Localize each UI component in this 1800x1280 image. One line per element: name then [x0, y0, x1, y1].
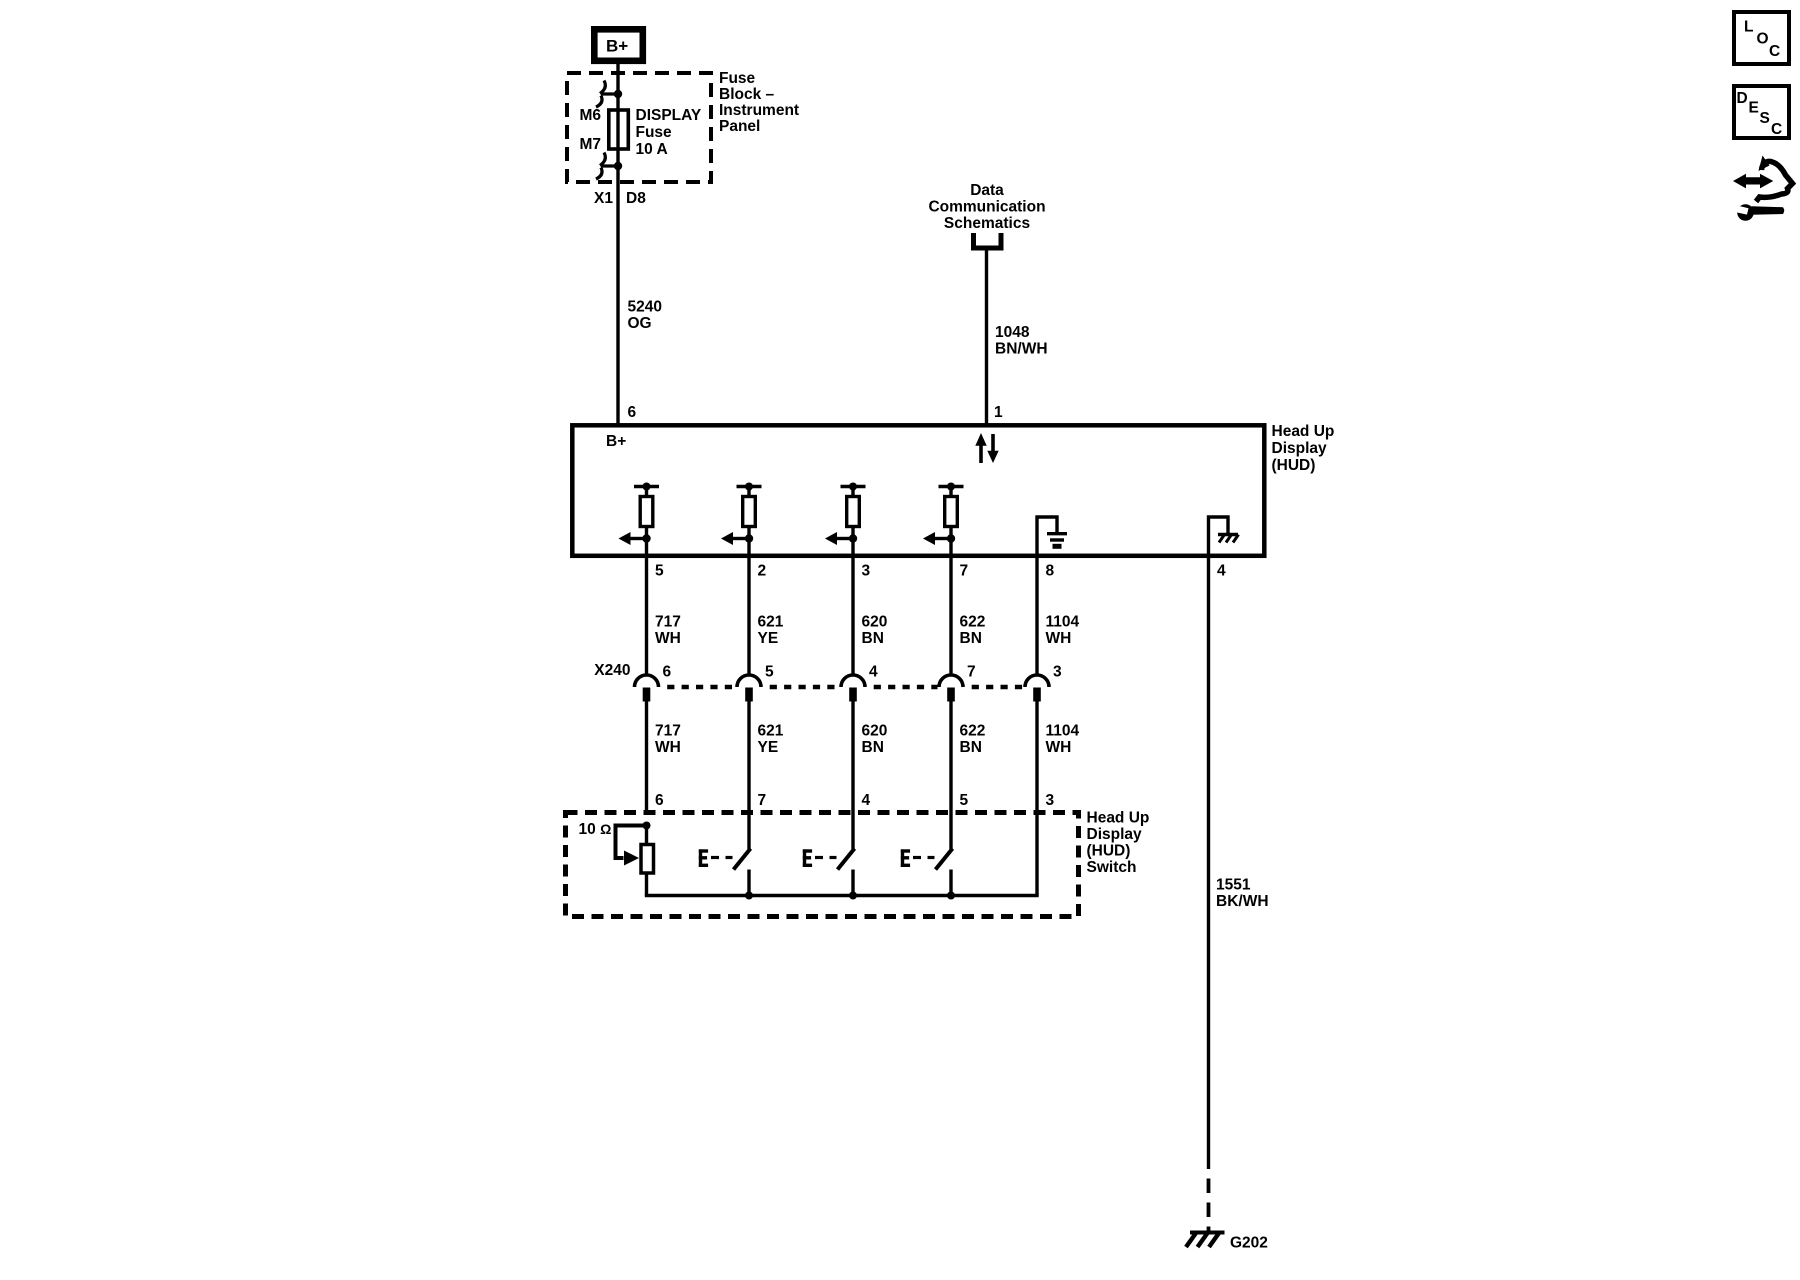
- wire 622 BN lower segment: [949, 702, 952, 813]
- svg-text:10 Ω: 10 Ω: [579, 821, 612, 838]
- svg-text:1104: 1104: [1046, 723, 1080, 740]
- svg-text:BN: BN: [960, 630, 982, 647]
- svg-text:BN: BN: [960, 739, 982, 756]
- wire label 620 BN (upper): [862, 614, 888, 648]
- svg-text:YE: YE: [758, 630, 779, 647]
- wire 1551 BK/WH label: [1216, 877, 1269, 911]
- wire label 1104 WH (upper): [1046, 614, 1080, 648]
- svg-text:7: 7: [758, 792, 767, 809]
- svg-text:2: 2: [758, 563, 767, 580]
- Head Up Display (HUD) module box: [572, 425, 1264, 556]
- svg-text:622: 622: [960, 723, 986, 740]
- wire 5240 OG label: [628, 299, 662, 333]
- X240 connector dashed link: [763, 685, 840, 690]
- svg-text:Switch: Switch: [1087, 859, 1137, 876]
- wire 1048 BN/WH label: [995, 324, 1048, 358]
- svg-text:X240: X240: [594, 662, 630, 679]
- wire 620 BN lower segment: [851, 702, 854, 813]
- svg-text:Block –: Block –: [719, 86, 775, 103]
- wire 717 WH lower segment: [645, 702, 648, 813]
- svg-text:DISPLAY: DISPLAY: [636, 107, 702, 124]
- svg-text:4: 4: [862, 792, 871, 809]
- svg-text:5: 5: [655, 563, 664, 580]
- svg-text:BN: BN: [862, 739, 884, 756]
- wire 621 YE lower segment: [747, 702, 750, 813]
- fuse block dashed box: [567, 73, 711, 182]
- svg-text:622: 622: [960, 614, 986, 631]
- svg-text:WH: WH: [655, 630, 681, 647]
- svg-text:WH: WH: [1046, 630, 1072, 647]
- svg-text:G202: G202: [1230, 1235, 1268, 1252]
- svg-text:Fuse: Fuse: [636, 124, 673, 141]
- svg-text:Display: Display: [1087, 826, 1143, 843]
- svg-text:Panel: Panel: [719, 118, 760, 135]
- svg-text:BN: BN: [862, 630, 884, 647]
- svg-text:M7: M7: [579, 136, 601, 153]
- svg-text:717: 717: [655, 723, 681, 740]
- svg-text:B+: B+: [606, 37, 628, 56]
- battery positive voltage B+: [594, 29, 643, 61]
- HUD internal sensed element R3 (resistor with wiper arrow): [825, 483, 866, 557]
- svg-text:3: 3: [862, 563, 871, 580]
- HUD internal chassis ground (pin 4): [1209, 517, 1239, 556]
- fuse value label: [636, 107, 702, 158]
- wire label 621 YE (upper): [758, 614, 784, 648]
- wire 1104 WH upper segment: [1035, 558, 1038, 676]
- wire 1104 WH inside switch box: [1035, 812, 1038, 896]
- fuse block label: [719, 70, 799, 135]
- wire 1048 BN/WH serial data: [985, 247, 988, 426]
- fuse clip terminal M6: [596, 81, 622, 108]
- wire label 622 BN (upper): [960, 614, 986, 648]
- svg-text:Fuse: Fuse: [719, 70, 756, 87]
- svg-text:1551: 1551: [1216, 877, 1251, 894]
- svg-text:5: 5: [765, 664, 774, 681]
- wire label 621 YE (lower): [758, 723, 784, 757]
- svg-text:621: 621: [758, 723, 784, 740]
- wire label 717 WH (lower): [655, 723, 681, 757]
- svg-text:Communication: Communication: [928, 199, 1045, 216]
- wire 621 YE upper segment: [747, 558, 750, 676]
- HUD internal sensed element R2 (resistor with wiper arrow): [721, 483, 762, 557]
- svg-text:OG: OG: [628, 315, 652, 332]
- node: data communication schematics reference: [928, 182, 1045, 232]
- svg-text:X1: X1: [594, 190, 613, 207]
- wire label 622 BN (lower): [960, 723, 986, 757]
- X240 terminal 7 (female half and male pin): [939, 675, 963, 702]
- fuse clip terminal M7: [596, 153, 622, 180]
- navigation icon: double arrow, curved arrow, wrench: [1733, 156, 1793, 221]
- connector X1 pin D8 labels: [594, 190, 646, 207]
- svg-text:C: C: [1771, 121, 1782, 138]
- X240 connector dashed link: [660, 685, 736, 690]
- wire 622 BN upper segment: [949, 558, 952, 676]
- svg-text:O: O: [1757, 31, 1769, 48]
- svg-text:8: 8: [1046, 563, 1055, 580]
- svg-text:L: L: [1744, 19, 1753, 36]
- X240 terminal 6 (female half and male pin): [635, 675, 659, 702]
- svg-text:Head Up: Head Up: [1272, 423, 1335, 440]
- svg-text:Display: Display: [1272, 440, 1328, 457]
- svg-text:BK/WH: BK/WH: [1216, 893, 1269, 910]
- svg-text:S: S: [1760, 110, 1770, 127]
- wire label 620 BN (lower): [862, 723, 888, 757]
- HUD switch label: [1087, 810, 1150, 877]
- off-page bracket: [974, 233, 1002, 248]
- svg-text:10 A: 10 A: [636, 141, 668, 158]
- HUD switch contact S2 (E linked): [803, 812, 857, 900]
- svg-text:1: 1: [994, 404, 1003, 421]
- wire 1551 BK/WH to G202: [1207, 558, 1210, 1169]
- svg-text:(HUD): (HUD): [1087, 843, 1131, 860]
- svg-text:Head Up: Head Up: [1087, 810, 1150, 827]
- 10 ohm rheostat (dimming): [616, 822, 654, 896]
- serial data up/down arrows: [975, 433, 998, 463]
- svg-text:E: E: [1749, 100, 1759, 117]
- HUD internal sensed element R4 (resistor with wiper arrow): [923, 483, 964, 557]
- svg-text:Instrument: Instrument: [719, 102, 799, 119]
- X240 connector dashed link: [867, 685, 938, 690]
- svg-text:WH: WH: [1046, 739, 1072, 756]
- svg-text:D: D: [1737, 90, 1748, 107]
- wire 620 BN upper segment: [851, 558, 854, 676]
- svg-text:Data: Data: [970, 182, 1004, 199]
- svg-text:M6: M6: [579, 107, 601, 124]
- ground G202 symbol: [1186, 1233, 1225, 1248]
- switch common bus wire: [645, 894, 1039, 897]
- svg-text:717: 717: [655, 614, 681, 631]
- svg-text:WH: WH: [655, 739, 681, 756]
- wire 717 WH upper segment: [645, 558, 648, 676]
- svg-text:6: 6: [628, 404, 637, 421]
- Head Up Display (HUD) Switch dashed box: [566, 813, 1079, 917]
- HUD internal signal ground (pin 8): [1037, 517, 1067, 556]
- DISPLAY fuse 10A body: [609, 110, 629, 149]
- svg-text:4: 4: [869, 664, 878, 681]
- svg-text:C: C: [1769, 43, 1780, 60]
- svg-text:4: 4: [1217, 563, 1226, 580]
- HUD module label: [1272, 423, 1335, 474]
- X240 terminal 3 (female half and male pin): [1025, 675, 1049, 702]
- svg-text:YE: YE: [758, 739, 779, 756]
- svg-text:6: 6: [655, 792, 664, 809]
- X240 terminal 4 (female half and male pin): [841, 675, 865, 702]
- svg-text:5240: 5240: [628, 299, 662, 316]
- svg-text:Schematics: Schematics: [944, 215, 1030, 232]
- svg-text:7: 7: [967, 664, 976, 681]
- DESC hotspot box: [1734, 86, 1789, 138]
- X240 terminal 5 (female half and male pin): [737, 675, 761, 702]
- svg-text:7: 7: [960, 563, 969, 580]
- svg-text:(HUD): (HUD): [1272, 457, 1316, 474]
- LOC hotspot box: [1734, 12, 1789, 64]
- svg-text:BN/WH: BN/WH: [995, 341, 1048, 358]
- HUD switch contact S3 (E linked): [901, 812, 955, 900]
- HUD internal sensed element R1 (resistor with wiper arrow): [619, 483, 660, 557]
- svg-text:3: 3: [1046, 792, 1055, 809]
- wire label 1104 WH (lower): [1046, 723, 1080, 757]
- wire 1104 WH lower segment: [1035, 702, 1038, 813]
- svg-text:B+: B+: [606, 433, 626, 450]
- svg-text:620: 620: [862, 723, 888, 740]
- svg-text:1048: 1048: [995, 324, 1030, 341]
- svg-text:6: 6: [663, 664, 672, 681]
- svg-text:621: 621: [758, 614, 784, 631]
- svg-text:D8: D8: [626, 190, 646, 207]
- HUD switch contact S1 (E linked): [699, 812, 753, 900]
- wire label 717 WH (upper): [655, 614, 681, 648]
- svg-text:5: 5: [960, 792, 969, 809]
- svg-text:620: 620: [862, 614, 888, 631]
- svg-text:1104: 1104: [1046, 614, 1080, 631]
- wire B+ feed through fuse to HUD pin 6: [616, 60, 619, 425]
- X240 connector dashed link: [965, 685, 1024, 690]
- svg-text:3: 3: [1053, 664, 1062, 681]
